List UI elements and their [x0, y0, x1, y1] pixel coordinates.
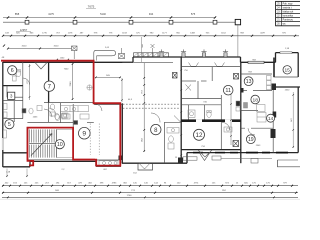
svg-text:12: 12 [195, 132, 203, 139]
svg-text:11: 11 [225, 88, 231, 94]
svg-text:klatka sch: klatka sch [283, 11, 294, 14]
svg-text:3110: 3110 [54, 46, 59, 48]
svg-text:18: 18 [252, 97, 258, 103]
svg-text:5: 5 [8, 122, 11, 128]
svg-text:7040: 7040 [70, 81, 72, 87]
svg-text:szatnia t: szatnia t [283, 7, 292, 10]
svg-text:944: 944 [149, 12, 154, 16]
svg-text:14: 14 [268, 116, 274, 121]
svg-text:9: 9 [82, 131, 86, 138]
svg-text:1746: 1746 [127, 195, 133, 197]
svg-text:858: 858 [15, 12, 20, 16]
svg-text:13: 13 [246, 79, 252, 85]
svg-text:6: 6 [11, 68, 14, 74]
svg-text:Pomieszc: Pomieszc [283, 19, 294, 22]
svg-text:Pok. wyp: Pok. wyp [283, 3, 293, 6]
svg-text:15: 15 [285, 68, 291, 74]
svg-text:komunika: komunika [283, 15, 294, 18]
svg-text:5140: 5140 [100, 12, 106, 16]
svg-text:10: 10 [57, 142, 63, 148]
svg-text:7675: 7675 [88, 5, 95, 9]
svg-text:3110: 3110 [22, 46, 27, 48]
svg-text:575: 575 [191, 12, 196, 16]
svg-text:19: 19 [248, 137, 254, 143]
svg-text:4175: 4175 [48, 12, 54, 16]
